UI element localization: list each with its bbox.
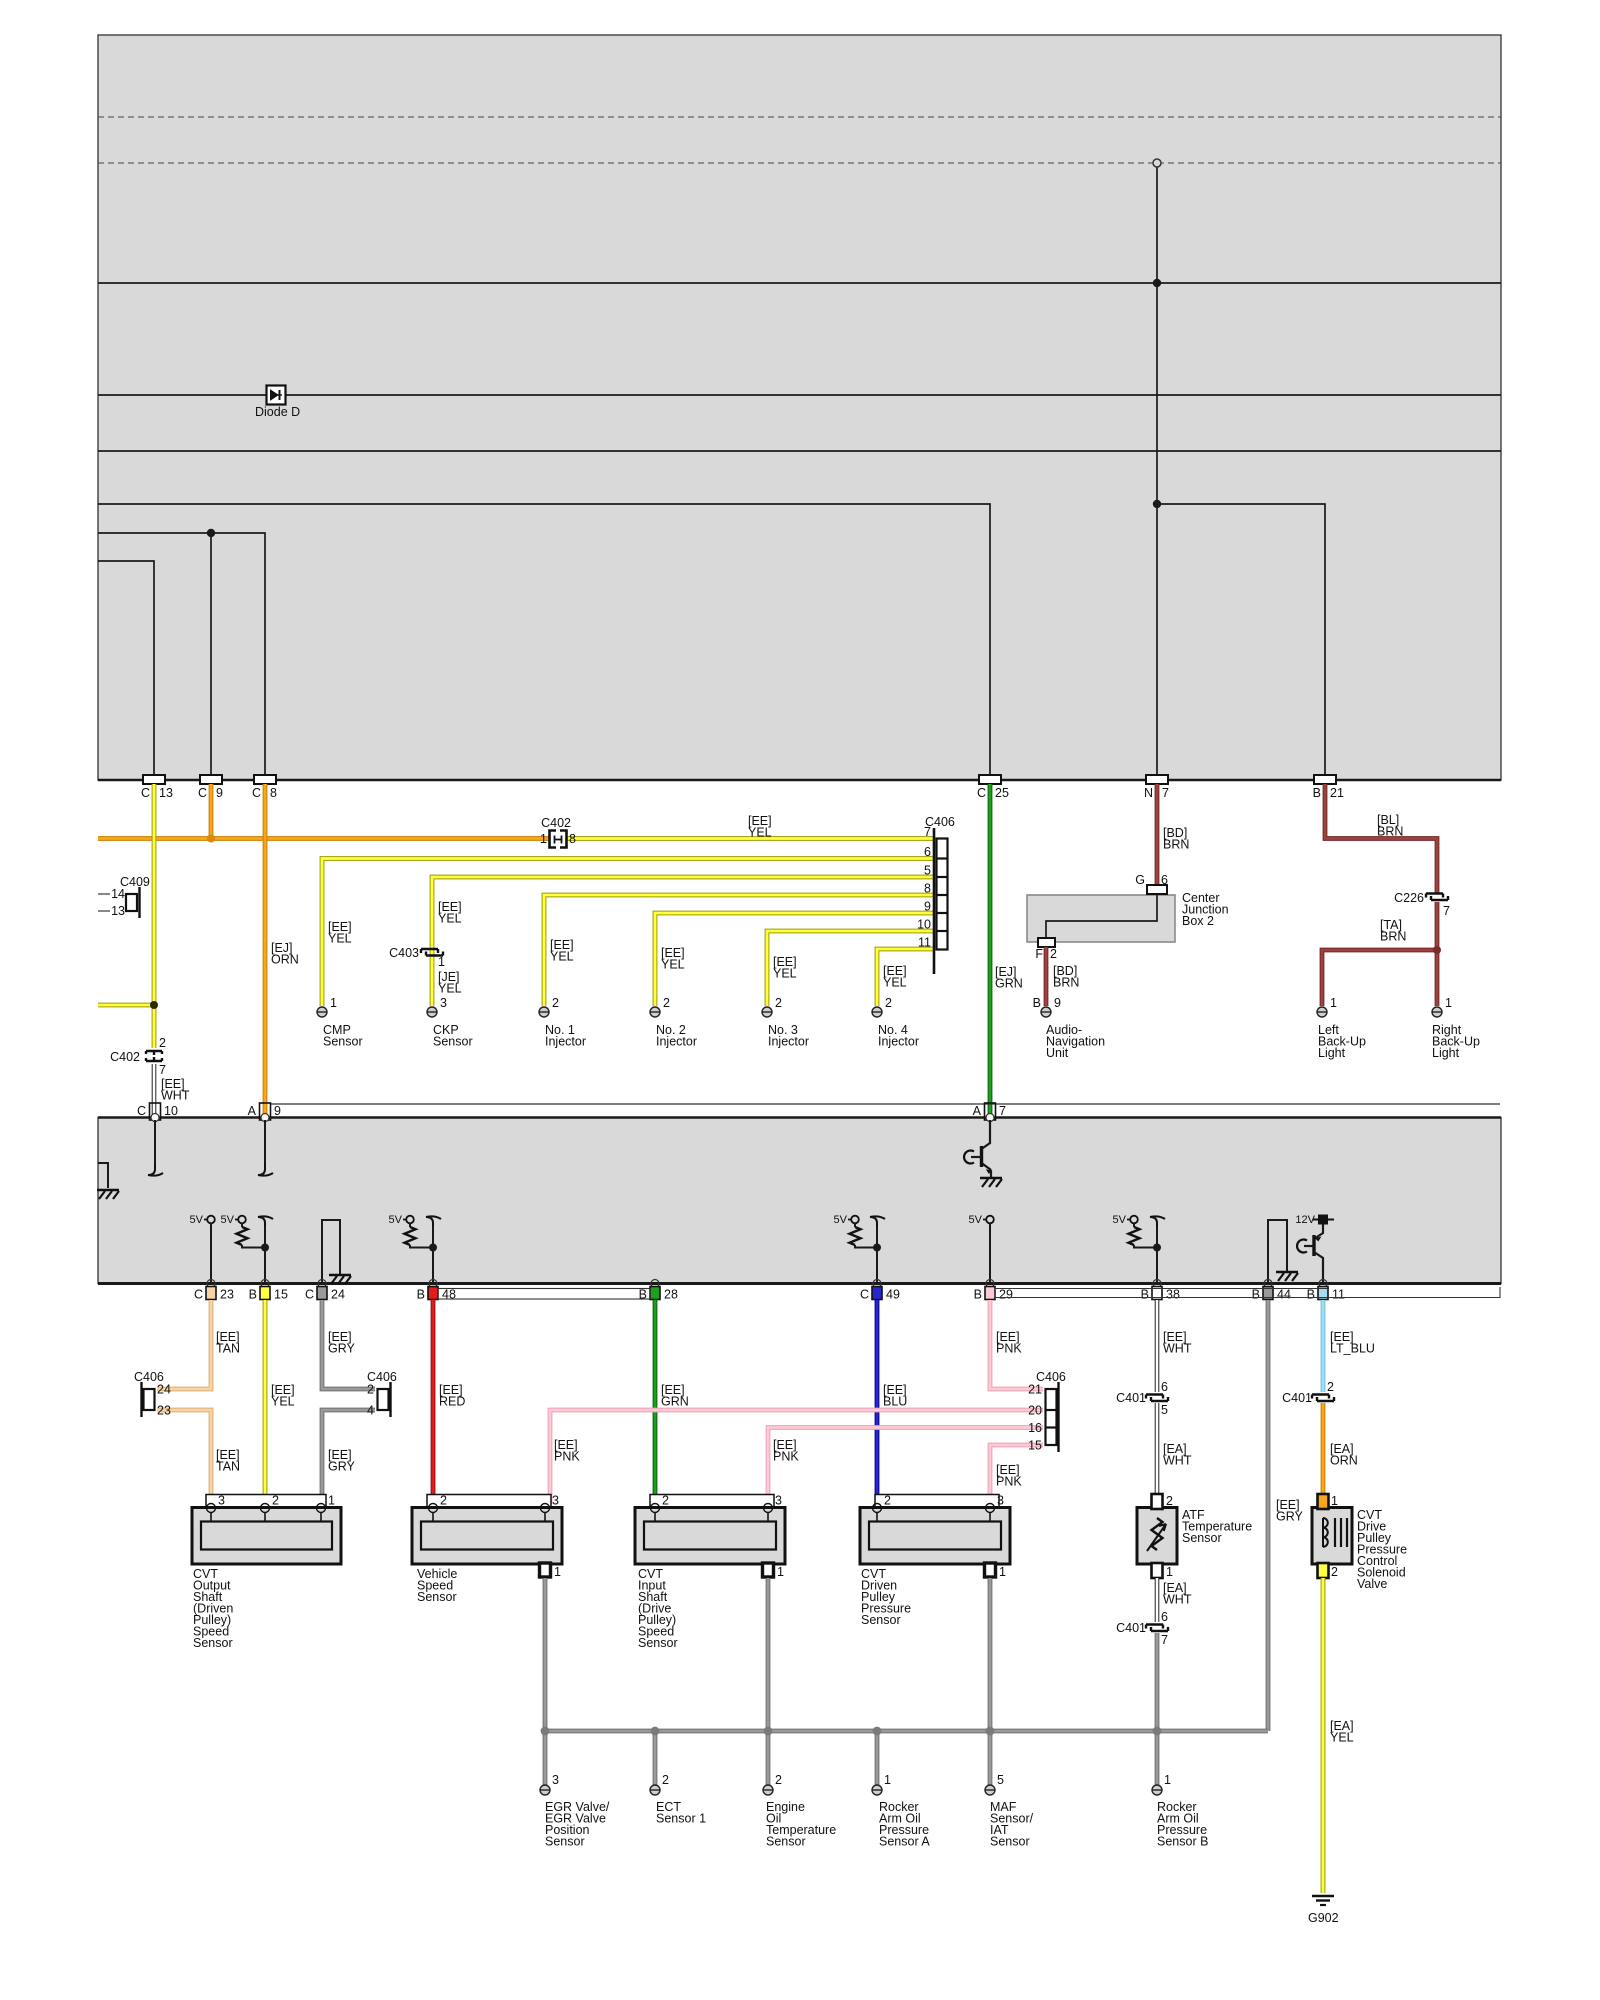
node Center Junction Box 2 label (1182, 891, 1229, 928)
svg-text:2: 2 (440, 1494, 447, 1508)
label [EE] TAN (lower) (216, 1448, 240, 1474)
terminal No. 1/Injector pin 2 (539, 996, 559, 1017)
label [EE] BLU (883, 1383, 907, 1409)
wire to ECT Sensor 1 (653, 1731, 658, 1786)
bus line (dashed) upper 2 (98, 162, 1501, 164)
5V source + pull-up resistor (B-48) (389, 1214, 441, 1283)
wire [BL] BRN from B-21 to C226 (1325, 784, 1437, 893)
terminal Left Back-Up Light pin 1 (1317, 996, 1337, 1017)
svg-text:Sensor: Sensor (323, 1035, 363, 1049)
svg-text:1: 1 (1445, 996, 1452, 1010)
connector B frame (B-48 to B-28) (438, 1289, 650, 1300)
internal ground loop (C-24) (322, 1220, 351, 1284)
svg-text:3: 3 (218, 1494, 225, 1508)
PCM/ECM block (upper) (98, 35, 1501, 780)
svg-text:YEL: YEL (773, 967, 797, 981)
svg-text:24: 24 (157, 1383, 171, 1397)
svg-text:2: 2 (775, 996, 782, 1010)
svg-text:YEL: YEL (550, 950, 574, 964)
svg-text:B: B (1033, 996, 1041, 1010)
svg-text:YEL: YEL (271, 1395, 295, 1409)
wire stub below A-9 (258, 1120, 273, 1176)
svg-text:C: C (137, 1104, 146, 1118)
node EGR Valve / EGR Valve Position Sensor (545, 1800, 610, 1849)
connector C409 (98, 875, 150, 918)
12V source + transistor (B-11) (1295, 1214, 1334, 1283)
ground G902 (1308, 1896, 1339, 1925)
ground (left edge of PCM) (97, 1163, 119, 1199)
svg-text:TAN: TAN (216, 1342, 240, 1356)
svg-text:8: 8 (270, 786, 277, 800)
wire [EE] YEL to No. 3/Injector (767, 931, 934, 1006)
svg-text:5V: 5V (190, 1214, 204, 1226)
svg-text:Sensor: Sensor (990, 1835, 1030, 1849)
svg-text:14: 14 (111, 887, 125, 901)
svg-text:5V: 5V (221, 1214, 235, 1226)
svg-text:Sensor B: Sensor B (1157, 1835, 1208, 1849)
svg-text:5V: 5V (389, 1214, 403, 1226)
svg-text:2: 2 (1166, 1494, 1173, 1508)
svg-text:7: 7 (159, 1063, 166, 1077)
svg-text:C: C (194, 1288, 203, 1302)
svg-text:GRY: GRY (328, 1460, 356, 1474)
svg-text:ORN: ORN (271, 953, 299, 967)
svg-text:YEL: YEL (328, 932, 352, 946)
svg-text:9: 9 (924, 900, 931, 914)
svg-text:B: B (1252, 1288, 1260, 1302)
svg-text:1: 1 (1166, 1565, 1173, 1579)
label [EJ] ORN (271, 941, 299, 967)
wire sensor ground bus (545, 1729, 1268, 1734)
connector C406 (pins 2/4) (367, 1370, 397, 1418)
connector C226 (inline) (1394, 891, 1450, 918)
label [EE] WHT (1163, 1330, 1192, 1356)
svg-text:YEL: YEL (748, 826, 772, 840)
svg-text:PNK: PNK (773, 1450, 799, 1464)
svg-text:15: 15 (274, 1288, 288, 1302)
connector pin A-7 (973, 1103, 1006, 1122)
svg-text:PNK: PNK (996, 1342, 1022, 1356)
svg-text:C: C (305, 1288, 314, 1302)
wire [EA] YEL from solenoid valve to G902 (1321, 1578, 1326, 1893)
internal wire y=561 to C-13 (98, 561, 154, 775)
wire to Rocker Arm Oil Pressure Sensor A (875, 1731, 880, 1786)
svg-text:BRN: BRN (1380, 930, 1406, 944)
node No. 1/Injector (545, 1023, 586, 1049)
5V source + pull-up resistor (C-49) (834, 1214, 885, 1283)
svg-text:2: 2 (272, 1494, 279, 1508)
svg-text:7: 7 (1162, 786, 1169, 800)
svg-text:ORN: ORN (1330, 1454, 1358, 1468)
junction dot orange (211,838) (207, 835, 215, 843)
svg-text:Light: Light (1318, 1046, 1346, 1060)
svg-text:2: 2 (159, 1036, 166, 1050)
label [EE] YEL (748, 814, 772, 840)
svg-text:2: 2 (884, 1494, 891, 1508)
transistor (A-7 driver) (964, 1120, 1002, 1187)
connector C401 (pin 2) (1282, 1380, 1334, 1405)
terminal Rocker Arm Oil Pressure Sensor A pin 1 (872, 1773, 891, 1795)
svg-text:Diode D: Diode D (255, 405, 300, 419)
connector B frame (B-29 to right edge) (995, 1287, 1500, 1298)
node Vehicle Speed Sensor label (417, 1567, 457, 1604)
svg-text:Sensor: Sensor (417, 1590, 457, 1604)
label [EE] LT_BLU (1330, 1330, 1375, 1356)
svg-text:5V: 5V (1113, 1214, 1127, 1226)
svg-text:4: 4 (367, 1404, 374, 1418)
svg-text:7: 7 (1443, 904, 1450, 918)
label [BD] BRN (lower) (1053, 964, 1079, 990)
wire [EJ] ORN horizontal to C402 (98, 836, 550, 841)
svg-text:21: 21 (1028, 1383, 1042, 1397)
svg-text:1: 1 (1331, 1494, 1338, 1508)
svg-text:1: 1 (438, 955, 445, 969)
svg-text:GRN: GRN (661, 1395, 689, 1409)
node ECT Sensor 1 (656, 1800, 706, 1826)
wire [EE] PNK C406 pin 20 to Vehicle Speed Sensor pin 3 (550, 1410, 1043, 1504)
svg-text:Sensor: Sensor (545, 1835, 585, 1849)
label [BD] BRN (upper) (1163, 826, 1189, 852)
connector pin B-38 (1141, 1280, 1180, 1302)
junction dot brown (1437,950) (1433, 946, 1441, 954)
svg-text:38: 38 (1166, 1288, 1180, 1302)
label [EE] YEL (No. 1/Injector) (550, 938, 574, 964)
svg-text:3: 3 (775, 1494, 782, 1508)
svg-text:Injector: Injector (768, 1035, 809, 1049)
svg-text:RED: RED (439, 1395, 465, 1409)
junction dot at (211,533) (207, 529, 215, 537)
wire [EE] PNK C406 pin 15 to CVT Driven Pulley Pressure Sensor pin 3 (990, 1445, 1043, 1504)
diode D (255, 386, 300, 420)
node Rocker Arm Oil Pressure Sensor B (1157, 1800, 1208, 1849)
wire [BD] BRN from F-2 to Audio-Navigation Unit (1044, 947, 1049, 1006)
svg-text:6: 6 (1161, 873, 1168, 887)
connector pin B-48 (417, 1280, 456, 1302)
connector pin C-23 (194, 1280, 234, 1302)
internal wire from dashed bus to N-7 (1153, 159, 1161, 775)
svg-text:WHT: WHT (1163, 1342, 1192, 1356)
connector pin B-11 (1307, 1280, 1345, 1302)
connector pin C-24 (305, 1280, 345, 1302)
terminal Right Back-Up Light pin 1 (1432, 996, 1452, 1017)
svg-text:1: 1 (330, 996, 337, 1010)
internal wire to C-9 (210, 533, 212, 775)
svg-text:BRN: BRN (1163, 838, 1189, 852)
svg-text:9: 9 (216, 786, 223, 800)
svg-text:1: 1 (1164, 1773, 1171, 1787)
svg-text:C403: C403 (389, 946, 419, 960)
svg-text:B: B (1141, 1288, 1149, 1302)
connector pin A-9 (248, 1103, 281, 1122)
svg-text:2: 2 (662, 1494, 669, 1508)
svg-text:29: 29 (999, 1288, 1013, 1302)
terminal CMP/Sensor pin 1 (317, 996, 337, 1017)
sensor CVT Input Shaft (Drive Pulley) Speed Sensor (635, 1494, 785, 1580)
wire [EE] LT_BLU from B-11 to C401 (1321, 1300, 1326, 1392)
svg-text:Sensor 1: Sensor 1 (656, 1812, 706, 1826)
wire [TA] BRN to back-up lights (1322, 902, 1437, 1006)
label [JE] YEL (438, 970, 462, 996)
svg-text:N: N (1144, 786, 1153, 800)
label [EE] RED (439, 1383, 465, 1409)
junction dot at (1157,504) (1153, 500, 1161, 508)
5V source + pull-up resistor (B-15) (221, 1214, 273, 1283)
svg-text:BRN: BRN (1053, 976, 1079, 990)
label [EE] PNK (pin 15) (996, 1463, 1022, 1489)
svg-text:6: 6 (1161, 1380, 1168, 1394)
5V source (C-23) (190, 1214, 215, 1283)
wire [EE] GRY from C-24 through C406 (322, 1300, 375, 1504)
svg-text:9: 9 (1054, 996, 1061, 1010)
svg-text:8: 8 (924, 882, 931, 896)
connector C402 (inline, H style) (541, 816, 571, 848)
svg-text:24: 24 (331, 1288, 345, 1302)
node Engine Oil Temperature Sensor (766, 1800, 836, 1849)
terminal ECT Sensor 1 pin 2 (650, 1773, 669, 1795)
connector pin C-25 (977, 775, 1009, 800)
svg-text:B: B (249, 1288, 257, 1302)
svg-text:1: 1 (540, 832, 547, 846)
svg-text:44: 44 (1277, 1288, 1291, 1302)
wire [EA] WHT from C401 to ATF sensor (1155, 1403, 1160, 1494)
wire [EA] WHT from ATF sensor to C401 (1155, 1578, 1160, 1622)
internal bus wire y=395 (98, 394, 1501, 396)
svg-text:13: 13 (111, 904, 125, 918)
label [EJ] GRN (995, 965, 1023, 991)
svg-text:YEL: YEL (661, 958, 685, 972)
wire [EE] YEL to No. 2/Injector (655, 913, 934, 1006)
svg-text:6: 6 (924, 845, 931, 859)
svg-text:12V: 12V (1295, 1214, 1315, 1226)
solenoid CVT Drive Pulley Pressure Control Solenoid Valve (1312, 1494, 1352, 1579)
svg-text:2: 2 (885, 996, 892, 1010)
wire stub below C-10 (148, 1120, 163, 1176)
svg-text:WHT: WHT (1163, 1593, 1192, 1607)
svg-text:1: 1 (1330, 996, 1337, 1010)
label [EE] PNK (pin 16) (773, 1438, 799, 1464)
wire [EJ] GRN from C-25 to A-7 (988, 784, 993, 1116)
node CKP/Sensor (433, 1023, 473, 1049)
svg-text:PNK: PNK (996, 1475, 1022, 1489)
wire [EE] YEL from C402 to C406 pin 7 (566, 836, 934, 841)
svg-text:1: 1 (328, 1494, 335, 1508)
5V source (B-29) (969, 1214, 994, 1283)
label [EE] GRY (lower) (328, 1448, 356, 1474)
label [EE] PNK (B-29) (996, 1330, 1022, 1356)
internal wire y=533 to C-8 (98, 533, 265, 775)
wire [EE] YEL to No. 1/Injector (544, 895, 934, 1006)
svg-text:3: 3 (552, 1773, 559, 1787)
svg-text:3: 3 (552, 1494, 559, 1508)
node CMP/Sensor (323, 1023, 363, 1049)
label [EE] YEL (B-15) (271, 1383, 295, 1409)
svg-text:Injector: Injector (545, 1035, 586, 1049)
wire Vehicle Speed Sensor pin1 to EGR sensor (543, 1578, 548, 1786)
wire [EE] BLU from C-49 to CVT Driven Pulley Pressure Sensor (875, 1300, 880, 1504)
wire [EE] YEL branch to left edge (98, 1003, 154, 1008)
terminal CKP/Sensor pin 3 (427, 996, 447, 1017)
wire [EE] PNK from B-29 to C406 pin 21 (990, 1300, 1043, 1389)
svg-text:Sensor: Sensor (766, 1835, 806, 1849)
terminal No. 2/Injector pin 2 (650, 996, 670, 1017)
svg-text:Unit: Unit (1046, 1046, 1069, 1060)
svg-text:10: 10 (164, 1104, 178, 1118)
node No. 4/Injector (878, 1023, 919, 1049)
svg-text:1: 1 (554, 1565, 561, 1579)
connector C401 (pins 6/7) (1116, 1610, 1168, 1647)
sensor CVT Driven Pulley Pressure Sensor (860, 1494, 1010, 1580)
node CVT Output Shaft Speed Sensor label (193, 1567, 233, 1650)
connector pin B-29 (974, 1280, 1013, 1302)
svg-text:7: 7 (924, 825, 931, 839)
svg-text:3: 3 (997, 1494, 1004, 1508)
connector pin C-13 (141, 775, 173, 800)
svg-text:Sensor: Sensor (861, 1613, 901, 1627)
connector pin B-28 (639, 1280, 678, 1302)
svg-text:TAN: TAN (216, 1460, 240, 1474)
wire [EE] GRN from B-28 to CVT Input Shaft sensor (653, 1300, 658, 1504)
label [EE] TAN (upper) (216, 1330, 240, 1356)
node No. 2/Injector (656, 1023, 697, 1049)
svg-text:G: G (1135, 873, 1145, 887)
connector C406 (engine harness, pins 7-11) (925, 815, 955, 974)
svg-text:BRN: BRN (1377, 825, 1403, 839)
label [EA] YEL (1330, 1719, 1354, 1745)
internal bus wire y=283 (98, 282, 1501, 284)
svg-text:25: 25 (995, 786, 1009, 800)
svg-text:B: B (974, 1288, 982, 1302)
label [EE] PNK (pin 20) (554, 1438, 580, 1464)
wire [EE] PNK C406 pin 16 to CVT Input Shaft sensor pin 3 (768, 1428, 1043, 1505)
label [EE] GRY (B-44) (1276, 1498, 1304, 1524)
sensor CVT Output Shaft (Driven Pulley) Speed Sensor (192, 1494, 341, 1565)
junction dot (154,1005) (150, 1001, 158, 1009)
node ATF Temperature Sensor label (1182, 1508, 1252, 1545)
svg-text:11: 11 (1332, 1288, 1345, 1302)
svg-text:2: 2 (367, 1383, 374, 1397)
svg-text:B: B (1307, 1288, 1315, 1302)
svg-text:1: 1 (777, 1565, 784, 1579)
svg-text:2: 2 (775, 1773, 782, 1787)
svg-text:C401: C401 (1282, 1391, 1312, 1405)
svg-text:1: 1 (884, 1773, 891, 1787)
svg-text:Sensor: Sensor (638, 1636, 678, 1650)
junction dot at (1157,283) (1153, 279, 1161, 287)
Center Junction Box 2 (1027, 895, 1175, 942)
svg-text:WHT: WHT (1163, 1454, 1192, 1468)
wire [EE] YEL to No. 4/Injector (877, 949, 934, 1006)
wire [EJ] ORN from C-9 down to orange bus (209, 784, 214, 839)
PCM/ECM block (lower) (98, 1118, 1501, 1284)
connector C406 (pins 24/23) (134, 1370, 171, 1418)
svg-text:21: 21 (1330, 786, 1344, 800)
svg-text:C401: C401 (1116, 1621, 1146, 1635)
svg-text:10: 10 (917, 918, 931, 932)
svg-text:Sensor: Sensor (1182, 1531, 1222, 1545)
wire CVT Input pin1 to Engine Oil Temperature Sensor (766, 1578, 771, 1786)
label [EE] GRN (661, 1383, 689, 1409)
label [EE] YEL (CMP/Sensor) (328, 920, 352, 946)
svg-text:15: 15 (1028, 1439, 1042, 1453)
wire [EE] YEL from C-13 down (152, 784, 157, 1048)
svg-text:1: 1 (999, 1565, 1006, 1579)
svg-text:Valve: Valve (1357, 1577, 1387, 1591)
svg-text:6: 6 (1161, 1610, 1168, 1624)
connector C401 (pins 6/5) (1116, 1380, 1168, 1417)
bus line (dashed) upper 1 (98, 116, 1501, 118)
sensor Vehicle Speed Sensor (412, 1494, 562, 1580)
node Right Back-Up Light (1432, 1023, 1480, 1060)
svg-text:8: 8 (569, 832, 576, 846)
svg-text:23: 23 (157, 1404, 171, 1418)
label [EE] WHT (161, 1077, 190, 1103)
terminal Rocker Arm Oil Pressure Sensor B pin 1 (1152, 1773, 1171, 1795)
svg-text:Sensor: Sensor (433, 1035, 473, 1049)
svg-text:16: 16 (1028, 1421, 1042, 1435)
svg-text:YEL: YEL (438, 912, 462, 926)
node CVT Driven Pulley Pressure Sensor label (861, 1567, 911, 1627)
wire [EA] ORN from C401 to solenoid valve (1321, 1403, 1326, 1494)
svg-text:7: 7 (1161, 1633, 1168, 1647)
svg-text:Sensor A: Sensor A (879, 1835, 930, 1849)
node CVT Drive Pulley Pressure Control Solenoid Valve label (1357, 1508, 1407, 1591)
svg-text:Box 2: Box 2 (1182, 914, 1214, 928)
svg-text:C402: C402 (541, 816, 571, 830)
svg-text:YEL: YEL (883, 976, 907, 990)
svg-text:28: 28 (664, 1288, 678, 1302)
5V source + pull-up resistor (B-38) (1113, 1214, 1165, 1283)
svg-text:9: 9 (274, 1104, 281, 1118)
connector C402 (inline on yellow/white wire) (110, 1036, 166, 1077)
connector pin C-8 (252, 775, 277, 800)
svg-text:13: 13 (159, 786, 173, 800)
connector pin B-15 (249, 1280, 288, 1302)
svg-text:A: A (973, 1104, 982, 1118)
wire [EE] TAN from C-23 through C406 (157, 1300, 211, 1504)
node No. 3/Injector (768, 1023, 809, 1049)
connector A frame (thin line) (271, 1103, 1500, 1105)
PCM lower edge (98, 779, 1501, 782)
internal bus wire y=451 (98, 450, 1501, 452)
wire CVT Driven pin1 to MAF Sensor (988, 1578, 993, 1786)
svg-text:2: 2 (1331, 1565, 1338, 1579)
label [TA] BRN (1380, 918, 1406, 944)
node Audio-Navigation Unit (1046, 1023, 1105, 1060)
label [EE] GRY (upper) (328, 1330, 356, 1356)
connector pin C-10 (137, 1103, 178, 1122)
wire [BD] BRN from N-7 to G-6 (1155, 784, 1160, 885)
connector G-6 (1135, 873, 1168, 894)
svg-text:2: 2 (663, 996, 670, 1010)
svg-text:C: C (198, 786, 207, 800)
connector pin C-9 (198, 775, 223, 800)
connector pin B-21 (1313, 775, 1344, 800)
svg-text:BLU: BLU (883, 1395, 907, 1409)
wire [EE] YEL to CMP/Sensor (322, 859, 934, 1007)
svg-text:2: 2 (552, 996, 559, 1010)
svg-text:Injector: Injector (656, 1035, 697, 1049)
svg-text:YEL: YEL (1330, 1731, 1354, 1745)
svg-text:Sensor: Sensor (193, 1636, 233, 1650)
label [EE] YEL (No. 4/Injector) (883, 964, 907, 990)
svg-text:20: 20 (1028, 1404, 1042, 1418)
terminal No. 4/Injector pin 2 (872, 996, 892, 1017)
svg-text:GRY: GRY (328, 1342, 356, 1356)
svg-text:49: 49 (886, 1288, 900, 1302)
svg-text:YEL: YEL (438, 982, 462, 996)
wire [EE] GRY from B-44 to sensor ground bus (1266, 1300, 1271, 1731)
svg-text:C226: C226 (1394, 891, 1424, 905)
